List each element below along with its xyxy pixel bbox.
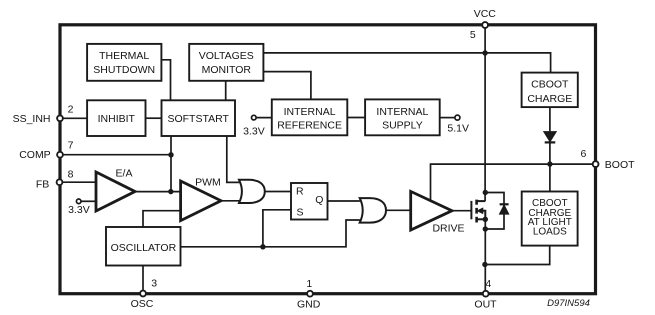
block VOLTAGES MONITOR <box>189 44 263 81</box>
wire INHIBIT to SOFTSTART <box>146 117 162 119</box>
svg-text:SS_INH: SS_INH <box>13 113 51 125</box>
wire INTERNAL REFERENCE to INTERNAL SUPPLY <box>347 117 365 119</box>
junction node BOOT diode <box>547 161 552 166</box>
wire MOSFET source to OUT pin <box>484 219 486 293</box>
wire VOLTAGES MONITOR to INTERNAL REFERENCE <box>263 72 311 100</box>
buffer DRIVE <box>411 191 452 230</box>
svg-text:5: 5 <box>470 29 476 41</box>
wire FB to E/A <box>60 181 97 183</box>
svg-text:OSCILLATOR: OSCILLATOR <box>111 242 177 254</box>
svg-text:FB: FB <box>36 178 49 190</box>
svg-text:8: 8 <box>68 168 74 180</box>
svg-text:CHARGE: CHARGE <box>527 93 572 105</box>
junction node MOSFET source <box>483 217 488 222</box>
pin 6 BOOT <box>593 161 599 167</box>
wire SOFTSTART to OR gate 1 <box>227 136 240 182</box>
wire THERMAL SHUTDOWN to SOFTSTART <box>161 60 170 101</box>
block OSCILLATOR <box>106 227 181 266</box>
pin 4 OUT <box>483 291 489 297</box>
svg-text:R: R <box>296 185 304 197</box>
wire S input to oscillator line <box>263 210 291 247</box>
pin 3 OSC <box>140 291 146 297</box>
wire OSCILLATOR to OSC pin <box>142 266 144 294</box>
svg-text:CBOOT: CBOOT <box>531 79 569 91</box>
pin 2 SS_INH <box>57 115 63 121</box>
wire SOFTSTART to COMP and E/A output <box>170 136 172 192</box>
junction node MOSFET drain <box>483 190 488 195</box>
svg-text:2: 2 <box>68 104 74 116</box>
junction node E/A output <box>168 189 173 194</box>
svg-text:4: 4 <box>485 278 491 290</box>
wire 3.3V to INTERNAL REFERENCE <box>256 117 272 119</box>
wire OR gate 2 to DRIVE <box>385 209 411 211</box>
wire OSCILLATOR sawtooth to PWM <box>143 211 181 227</box>
svg-text:LOADS: LOADS <box>533 227 567 238</box>
comparator PWM <box>181 181 221 221</box>
pin 7 COMP <box>57 152 63 158</box>
op-amp E/A <box>96 172 135 211</box>
wire COMP <box>60 154 171 156</box>
svg-text:VCC: VCC <box>474 8 497 20</box>
pin 1 GND <box>307 291 313 297</box>
wire body diode branch <box>485 193 504 230</box>
wire BOOT junction to CBOOT CHARGE AT LIGHT LOADS <box>549 164 551 191</box>
junction node body diode bottom <box>483 226 488 231</box>
svg-text:BOOT: BOOT <box>605 159 635 171</box>
diode CBOOT <box>544 132 556 143</box>
junction node VCC rail <box>482 50 487 55</box>
svg-text:5.1V: 5.1V <box>447 123 469 135</box>
wire CBOOT CHARGE AT LIGHT LOADS to OUT rail <box>485 246 550 265</box>
wire Q output to OR gate 2 <box>328 200 360 202</box>
svg-text:3.3V: 3.3V <box>243 126 265 138</box>
wire VOLTAGES MONITOR to VCC rail and CBOOT CHARGE <box>263 53 550 73</box>
svg-text:7: 7 <box>68 140 74 152</box>
svg-text:GND: GND <box>297 298 321 310</box>
junction node oscillator S <box>260 244 265 249</box>
svg-text:THERMAL: THERMAL <box>99 50 149 62</box>
svg-text:6: 6 <box>580 148 586 160</box>
block THERMAL SHUTDOWN <box>87 44 161 81</box>
block SOFTSTART <box>162 100 236 136</box>
junction node COMP softstart <box>168 152 173 157</box>
svg-text:1: 1 <box>306 278 312 290</box>
wire INTERNAL SUPPLY to 5.1V <box>440 117 455 119</box>
svg-text:SHUTDOWN: SHUTDOWN <box>93 64 155 76</box>
block CBOOT CHARGE <box>522 73 578 108</box>
svg-text:DRIVE: DRIVE <box>432 222 464 234</box>
wire PWM output to OR gate 1 <box>221 200 239 202</box>
svg-text:E/A: E/A <box>116 168 133 180</box>
block INHIBIT <box>87 100 145 136</box>
wire BOOT line <box>431 164 596 201</box>
svg-text:OUT: OUT <box>474 299 497 311</box>
svg-text:COMP: COMP <box>19 149 51 161</box>
diode body <box>500 204 509 214</box>
gate OR1 <box>239 180 265 203</box>
svg-text:S: S <box>296 206 303 218</box>
svg-text:OSC: OSC <box>131 298 154 310</box>
pin 5 VCC <box>482 22 488 28</box>
wire OSCILLATOR output to OR gate 2 <box>181 220 360 247</box>
terminal 5.1V supply <box>455 115 460 120</box>
svg-text:INTERNAL: INTERNAL <box>284 106 336 118</box>
junction node OUT rail CBOOT return <box>482 262 487 267</box>
block CBOOT CHARGE AT LIGHT LOADS <box>522 192 578 246</box>
svg-text:D97IN594: D97IN594 <box>547 298 590 309</box>
wire CBOOT diode branch <box>549 107 551 164</box>
wire VOLTAGES MONITOR to SOFTSTART <box>225 81 227 100</box>
svg-text:PWM: PWM <box>195 176 221 188</box>
svg-text:3.3V: 3.3V <box>68 204 90 216</box>
svg-text:SUPPLY: SUPPLY <box>382 119 423 131</box>
flip-flop R S Q <box>291 183 328 220</box>
svg-text:3: 3 <box>151 278 157 290</box>
svg-text:REFERENCE: REFERENCE <box>277 119 342 131</box>
block INTERNAL REFERENCE <box>272 99 348 135</box>
wire VCC rail <box>484 25 486 201</box>
wire SS_INH to INHIBIT <box>60 117 87 119</box>
svg-text:VOLTAGES: VOLTAGES <box>199 50 254 62</box>
svg-text:INTERNAL: INTERNAL <box>376 106 428 118</box>
wire E/A output to PWM <box>135 191 181 193</box>
svg-text:SOFTSTART: SOFTSTART <box>167 113 229 125</box>
pin 8 FB <box>57 179 63 185</box>
svg-text:Q: Q <box>315 194 323 206</box>
IC boundary <box>60 25 596 294</box>
svg-text:INHIBIT: INHIBIT <box>98 113 136 125</box>
wire DRIVE to MOSFET gate <box>452 210 471 212</box>
wire OR gate 1 to R input <box>265 191 292 193</box>
transistor Q1 power MOSFET <box>471 200 485 223</box>
gate OR2 <box>360 198 386 223</box>
terminal 3.3V reference <box>252 115 257 120</box>
wire 3.3V to E/A <box>81 200 96 202</box>
block INTERNAL SUPPLY <box>365 99 440 135</box>
svg-text:MONITOR: MONITOR <box>202 64 252 76</box>
terminal 3.3V error amp <box>76 199 81 204</box>
